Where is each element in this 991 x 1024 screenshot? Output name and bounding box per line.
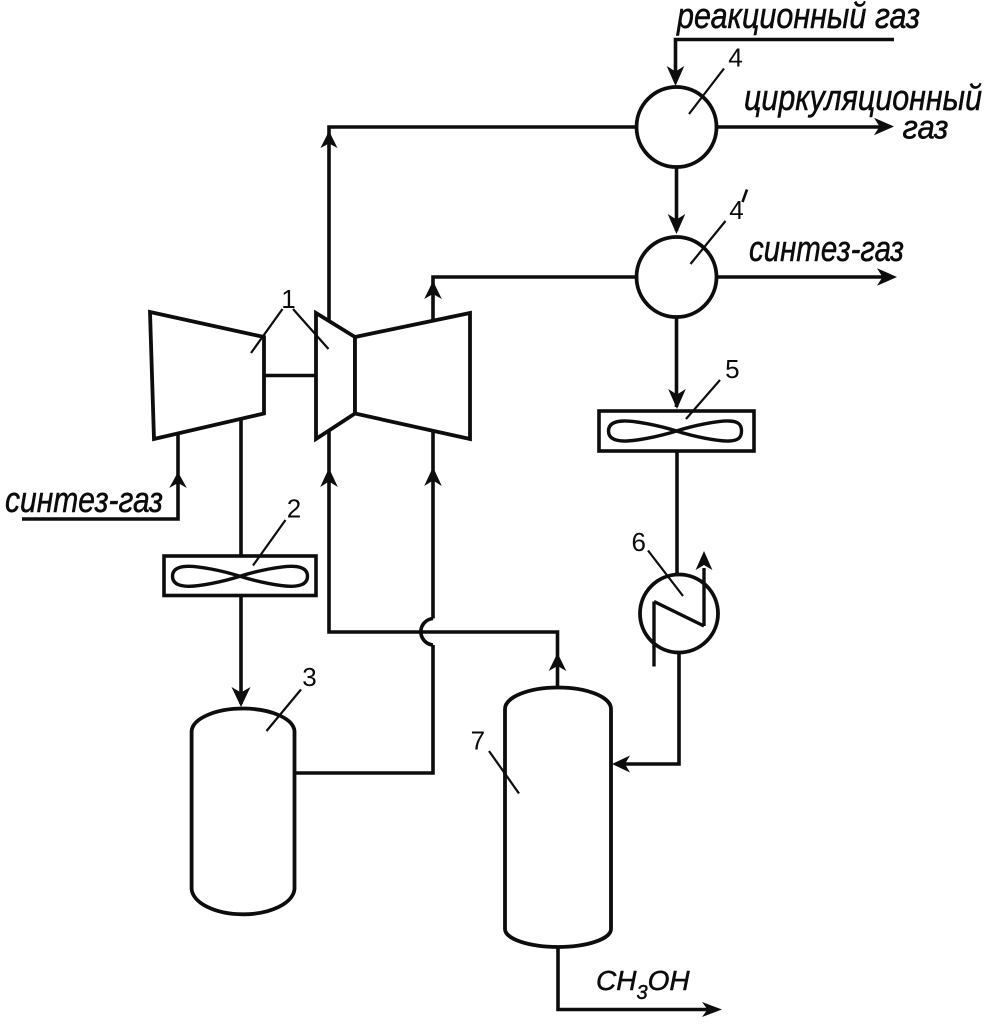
- arrowhead synthesis gas out: [877, 268, 897, 286]
- arrowhead methanol product: [702, 1002, 722, 1017]
- arrowhead separator 4 to 4': [668, 214, 686, 234]
- leader for label 2: [253, 520, 286, 566]
- wire: synthesis gas out of separator 4': [716, 275, 884, 279]
- vessel 7 (capsule): [505, 688, 611, 948]
- svg-text:4: 4: [729, 195, 743, 225]
- wire: synthesis gas inlet to left turbine: [22, 434, 178, 520]
- heat exchanger 6 circle: [640, 575, 718, 653]
- svg-text:газ: газ: [903, 109, 949, 146]
- svg-text:2: 2: [287, 494, 301, 524]
- heat exchanger 6 coil: right riser: [702, 568, 705, 626]
- svg-text:синтез-газ: синтез-газ: [5, 479, 163, 520]
- heat exchanger 6 coil: left tail: [652, 602, 655, 667]
- svg-text:CH3OH: CH3OH: [596, 965, 690, 1004]
- wire: left turbine exhaust down to fan cooler 2: [239, 419, 243, 556]
- arrowhead down into vessel 3: [232, 687, 251, 707]
- wire: from compressor mid stage up and right into separator 4: [329, 127, 638, 321]
- leader for label 6: [648, 551, 683, 597]
- arrowhead up out of vessel 7 top: [549, 653, 567, 671]
- wire: vessel 7 top up, left, to compressor mid stage inlet: [329, 431, 558, 689]
- wire: heat exchanger 6 down and left into vessel 7: [623, 653, 679, 764]
- svg-text:5: 5: [725, 354, 739, 384]
- wire: vessel 3 outlet right and up to compressor right stage (with hop): [295, 645, 434, 773]
- arrowhead circulation gas: [874, 118, 894, 136]
- wire: hop continue up into compressor right stage: [431, 431, 435, 619]
- arrowhead into separator 4: [667, 66, 685, 86]
- fan impeller symbol in cooler 2: [173, 566, 308, 586]
- wire: methanol product out of vessel 7 bottom: [558, 947, 709, 1010]
- wire: separator 4 down to separator 4': [675, 167, 679, 231]
- leader for label 3: [267, 690, 302, 732]
- arrowhead up below corner into separator 4': [424, 281, 442, 299]
- fan cooler 5 box: [599, 411, 754, 451]
- turbine 1 left casing: [150, 312, 264, 439]
- svg-text:синтез-газ: синтез-газ: [749, 228, 904, 269]
- wire hop over line at (433,632): [421, 619, 433, 646]
- leader for label 5: [686, 380, 720, 419]
- leader for label 4: [689, 69, 724, 115]
- fan impeller symbol in cooler 5: [609, 421, 742, 441]
- separator 4' circle: [637, 237, 717, 317]
- arrowhead up into compressor mid stage: [320, 468, 338, 487]
- compressor 1 right stage casing: [355, 313, 470, 439]
- svg-text:7: 7: [471, 726, 485, 756]
- separator 4 circle: [637, 87, 717, 167]
- shaft of turbo-compressor 1: [264, 374, 316, 378]
- svg-text:4: 4: [728, 43, 742, 73]
- compressor 1 mid stage casing: [316, 313, 355, 439]
- prime mark of label 4': [743, 190, 748, 203]
- wire: from compressor right stage up into separator 4': [433, 277, 637, 320]
- arrowhead left into vessel 7 side: [612, 756, 630, 773]
- wire: circulation gas out of separator 4: [716, 125, 881, 129]
- leader for label 4': [691, 221, 726, 264]
- leader for label 7: [489, 751, 519, 794]
- leader for label 1 (left): [251, 309, 283, 353]
- arrowhead up into separator 4 feed corner: [321, 131, 338, 148]
- arrowhead down into fan cooler 5: [668, 389, 686, 409]
- arrowhead up synthesis gas inlet: [169, 472, 187, 488]
- svg-text:3: 3: [302, 662, 316, 692]
- wire: fan cooler 5 down to heat exchanger 6: [675, 451, 679, 575]
- svg-text:1: 1: [281, 284, 295, 314]
- heat exchanger 6 coil: diagonal: [654, 602, 704, 627]
- arrowhead up inside heat exchanger 6 outlet: [696, 551, 713, 570]
- wire: fan cooler 2 down to vessel 3: [239, 596, 243, 705]
- svg-text:реакционный газ: реакционный газ: [676, 0, 920, 36]
- arrowhead up into compressor right stage: [424, 467, 442, 486]
- wire: separator 4' down to fan cooler 5: [675, 317, 679, 407]
- vessel 3 (capsule): [192, 709, 295, 915]
- leader for label 1 (right): [293, 309, 329, 349]
- wire: reaction gas feed into separator 4: [676, 40, 895, 81]
- fan cooler 2 box: [164, 556, 316, 596]
- svg-text:6: 6: [631, 527, 645, 557]
